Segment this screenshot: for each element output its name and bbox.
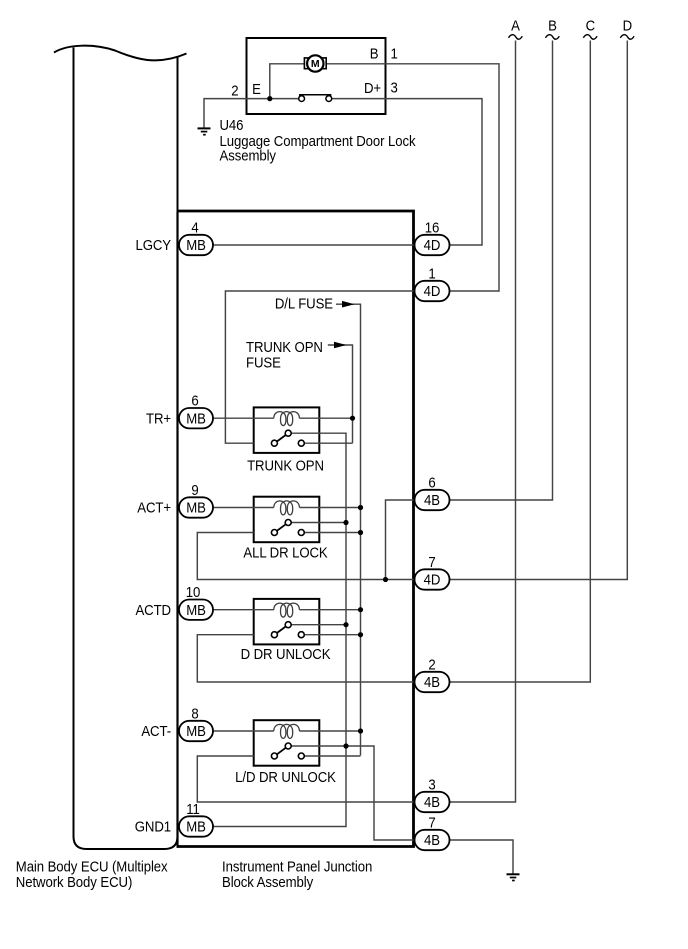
junction dot all-lock contact / D-L line	[358, 530, 363, 535]
wire all-lock blade to ground bus	[291, 522, 346, 524]
wire connector B to 4B6	[450, 41, 553, 501]
svg-text:4D: 4D	[424, 571, 441, 588]
wire ACTD MB10 to d-unlock coil	[213, 609, 274, 611]
connector oval MB pin 4 (LGCY)	[179, 235, 213, 255]
svg-text:3: 3	[391, 79, 398, 96]
svg-text:M: M	[311, 58, 320, 70]
svg-text:ACT+: ACT+	[137, 499, 171, 516]
relay box D DR UNLOCK	[254, 599, 320, 645]
wire TR+ MB6 to trunk coil	[213, 417, 274, 419]
junction dot d-unlock contact / D-L line	[358, 632, 363, 637]
svg-text:ALL DR LOCK: ALL DR LOCK	[243, 544, 328, 561]
junction dot d-unlock coil / D-L line	[358, 607, 363, 612]
svg-text:MB: MB	[186, 236, 206, 253]
svg-text:4B: 4B	[424, 831, 440, 848]
wire d-unlock common to 4B2	[197, 635, 414, 682]
wire LGCY MB4 to 4D16	[213, 244, 415, 246]
svg-text:Network Body ECU): Network Body ECU)	[16, 873, 132, 890]
wire all-lock common to 4D7	[197, 533, 414, 580]
connector U46 box (Luggage Compartment Door Lock Assembly)	[247, 38, 386, 114]
svg-text:GND1: GND1	[135, 818, 172, 835]
wire ld-unlock NO contact to D/L fuse line	[304, 755, 361, 757]
svg-text:D: D	[623, 16, 632, 33]
svg-text:6: 6	[191, 392, 198, 409]
switch contacts D DR UNLOCK relay	[271, 622, 304, 638]
svg-text:10: 10	[186, 583, 201, 600]
svg-text:L/D DR UNLOCK: L/D DR UNLOCK	[235, 768, 336, 785]
wire d-unlock blade to ground bus	[291, 624, 346, 626]
connector oval 4B pin 2	[415, 672, 450, 692]
connector break A	[509, 35, 523, 40]
wire U46 pin E to ground	[204, 99, 299, 128]
svg-text:TRUNK OPN: TRUNK OPN	[247, 456, 324, 473]
junction dot 4B6 / 4D7 common	[383, 577, 388, 582]
svg-text:TR+: TR+	[146, 410, 171, 427]
connector oval 4D pin 7	[415, 569, 450, 589]
svg-text:Main Body ECU (Multiplex: Main Body ECU (Multiplex	[16, 858, 168, 875]
switch contacts ALL DR LOCK relay	[271, 520, 304, 536]
svg-text:4B: 4B	[424, 491, 440, 508]
svg-text:ACT-: ACT-	[141, 722, 171, 739]
wire trunk coil to trunk fuse line	[299, 417, 352, 419]
relay box L/D DR UNLOCK	[254, 720, 320, 766]
svg-text:6: 6	[428, 473, 435, 490]
svg-text:FUSE: FUSE	[246, 354, 281, 371]
wire connector A to 4B3	[450, 41, 516, 803]
ground symbol at U46 pin E	[198, 128, 211, 134]
svg-text:LGCY: LGCY	[135, 236, 171, 253]
wire all-lock NO contact to D/L fuse line	[304, 532, 361, 534]
svg-text:D DR UNLOCK: D DR UNLOCK	[241, 645, 331, 662]
connector oval MB pin 9 (ACT+)	[179, 497, 213, 517]
wire ld-unlock coil to D/L fuse line	[299, 730, 360, 732]
svg-text:D+: D+	[364, 79, 381, 96]
svg-text:2: 2	[231, 82, 238, 99]
coil L/D DR UNLOCK relay	[274, 724, 300, 738]
svg-text:Assembly: Assembly	[220, 147, 277, 164]
wire d-unlock NO contact to D/L fuse line	[304, 634, 361, 636]
junction dot all-lock coil / D-L line	[358, 505, 363, 510]
wire 4B6 branch	[386, 500, 415, 580]
Main Body ECU (Multiplex Network Body ECU) outline	[54, 46, 187, 849]
connector oval 4D pin 16	[415, 235, 450, 255]
coil D DR UNLOCK relay	[274, 603, 300, 617]
svg-text:7: 7	[428, 553, 435, 570]
connector oval 4B pin 6	[415, 490, 450, 510]
svg-text:2: 2	[428, 655, 435, 672]
connector oval MB pin 10 (ACTD)	[179, 600, 213, 620]
wire ACT- MB8 to ld-unlock coil	[213, 730, 274, 732]
wire TRUNK OPN FUSE feed	[328, 345, 353, 443]
svg-text:ACTD: ACTD	[135, 601, 171, 618]
svg-text:C: C	[586, 16, 595, 33]
wire 4D1 to TRUNK OPN relay common	[225, 291, 414, 443]
coil ALL DR LOCK relay	[274, 501, 300, 515]
svg-text:7: 7	[428, 813, 435, 830]
svg-text:A: A	[511, 16, 520, 33]
wire trunk relay blade to ground bus	[213, 433, 346, 826]
motor M inside U46	[304, 55, 326, 71]
connector oval 4D pin 1	[415, 281, 450, 301]
arrow D/L FUSE	[342, 301, 355, 308]
connector oval MB pin 6 (TR+)	[179, 408, 213, 428]
svg-text:1: 1	[428, 264, 435, 281]
wire 4B7 to ground	[450, 840, 513, 874]
junction dot trunk coil / fuse line	[350, 416, 355, 421]
latch switch inside U46	[299, 95, 332, 102]
svg-text:4B: 4B	[424, 673, 440, 690]
svg-text:MB: MB	[186, 722, 206, 739]
Instrument Panel Junction Block Assembly outline	[177, 211, 414, 847]
svg-text:1: 1	[391, 44, 398, 61]
wire ld-unlock common to 4B3	[197, 756, 414, 802]
wire motor to E node	[270, 64, 305, 99]
relay box ALL DR LOCK	[254, 497, 320, 543]
wire U46 pin B (pin 1) to 4D pin 1	[326, 64, 499, 291]
connector oval 4B pin 7	[415, 830, 450, 850]
junction dot d-unlock blade / ground bus	[343, 622, 348, 627]
svg-text:MB: MB	[186, 410, 206, 427]
svg-text:4B: 4B	[424, 793, 440, 810]
wire ACT+ MB9 to all-lock coil	[213, 507, 274, 509]
svg-text:D/L FUSE: D/L FUSE	[275, 295, 333, 312]
switch contacts TRUNK OPN relay	[271, 430, 304, 446]
connector oval MB pin 8 (ACT-)	[179, 721, 213, 741]
wire D/L FUSE feed	[336, 304, 361, 755]
connector break C	[583, 35, 597, 40]
wire connector D to 4D7	[450, 41, 627, 580]
junction dot all-lock blade / ground bus	[343, 520, 348, 525]
svg-text:Instrument Panel Junction: Instrument Panel Junction	[222, 858, 372, 875]
connector oval 4B pin 3	[415, 792, 450, 812]
relay box TRUNK OPN	[254, 407, 320, 453]
connector oval MB pin 11 (GND1)	[179, 816, 213, 836]
junction dot ld-unlock coil / D-L line	[358, 728, 363, 733]
svg-text:Block Assembly: Block Assembly	[222, 873, 314, 890]
wire ld-unlock blade to ground bus and 4B7	[291, 746, 415, 840]
svg-text:E: E	[252, 80, 261, 97]
svg-text:B: B	[548, 16, 557, 33]
svg-text:MB: MB	[186, 818, 206, 835]
switch contacts L/D DR UNLOCK relay	[271, 743, 304, 759]
wire d-unlock coil to D/L fuse line	[299, 609, 360, 611]
svg-text:8: 8	[191, 704, 198, 721]
svg-text:11: 11	[186, 800, 200, 817]
svg-text:B: B	[370, 44, 379, 61]
arrow TRUNK OPN FUSE	[334, 342, 347, 349]
svg-text:U46: U46	[220, 116, 244, 133]
wire U46 pin D+ (pin 3) to 4D pin 16	[332, 99, 482, 245]
wire connector C to 4B2	[450, 41, 590, 683]
wire all-lock coil to D/L fuse line	[299, 507, 360, 509]
svg-text:MB: MB	[186, 601, 206, 618]
svg-text:4: 4	[191, 218, 198, 235]
junction dot ld-unlock blade / ground bus	[343, 743, 348, 748]
connector break D	[620, 35, 634, 40]
svg-text:16: 16	[425, 218, 440, 235]
wire trunk relay NO contact	[304, 442, 353, 444]
svg-text:3: 3	[428, 775, 435, 792]
svg-text:MB: MB	[186, 499, 206, 516]
junction dot U46 E node	[267, 96, 272, 101]
svg-text:4D: 4D	[424, 236, 441, 253]
ground symbol at 4B pin 7	[507, 874, 520, 880]
connector break B	[546, 35, 560, 40]
svg-text:4D: 4D	[424, 282, 441, 299]
coil TRUNK OPN relay	[274, 412, 300, 426]
svg-text:9: 9	[191, 481, 198, 498]
